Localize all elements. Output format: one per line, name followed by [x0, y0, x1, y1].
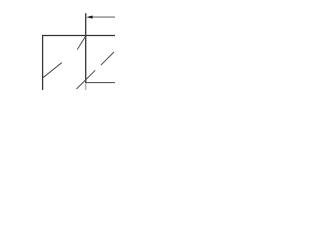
wire inner horizontal edge	[86, 82, 115, 84]
dimension line with arrow	[91, 16, 115, 18]
wire inner vertical faint continuation	[85, 83, 87, 90]
hatch line C	[43, 63, 62, 78]
arrowhead	[86, 16, 92, 19]
hatch line A lower segment	[77, 70, 96, 89]
background	[0, 0, 115, 90]
hatch line D	[77, 36, 85, 50]
wire top edge of part outline	[42, 35, 115, 37]
wire inner vertical edge / extension line	[85, 13, 87, 83]
hatch line A upper segment	[101, 52, 114, 65]
wire left edge of part outline	[42, 35, 44, 90]
